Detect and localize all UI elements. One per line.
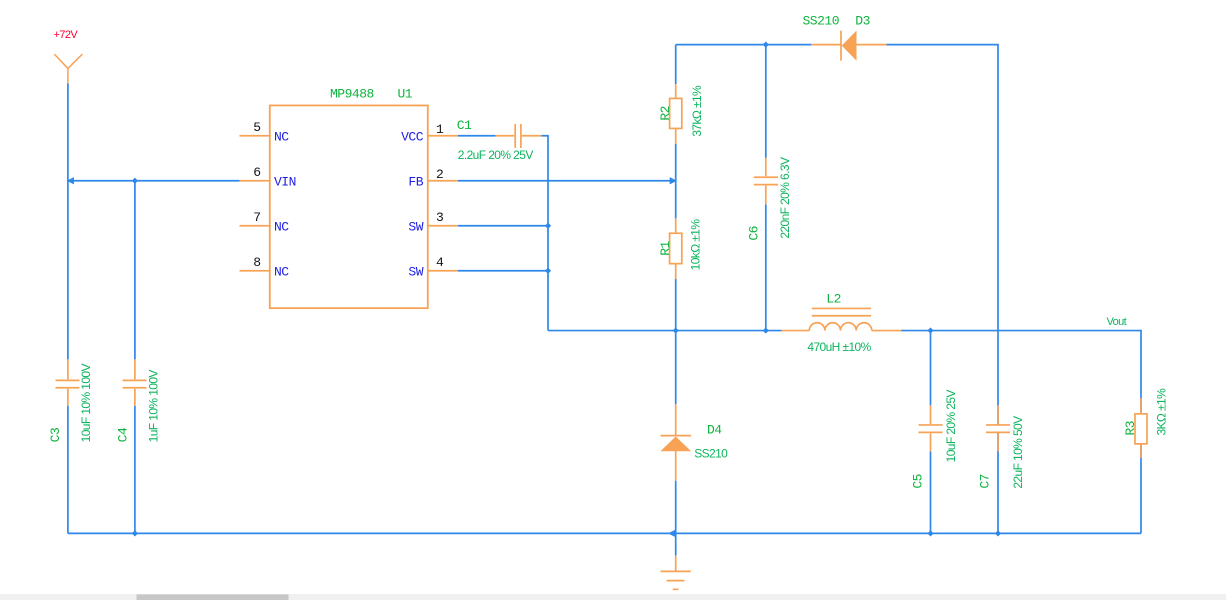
junction arrow D4/gnd: [668, 530, 675, 537]
svg-text:VCC: VCC: [401, 129, 424, 144]
capacitor C1 symbol: [496, 124, 542, 148]
svg-text:470uH ±10%: 470uH ±10%: [807, 340, 871, 354]
pin 7: [240, 225, 270, 227]
svg-text:4: 4: [436, 255, 444, 270]
capacitor C6: [765, 45, 767, 331]
svg-text:220nF 20% 6.3V: 220nF 20% 6.3V: [778, 157, 792, 239]
wire: bottom ground rail: [68, 532, 1141, 534]
junction dot C5 bottom: [927, 530, 933, 536]
svg-text:6: 6: [253, 165, 260, 180]
svg-text:10uF 20% 25V: 10uF 20% 25V: [944, 390, 958, 463]
svg-text:VIN: VIN: [274, 174, 296, 189]
resistor R2: [670, 84, 682, 144]
svg-text:SS210: SS210: [694, 447, 728, 461]
svg-text:R2: R2: [658, 106, 673, 121]
pin 2 FB: [428, 180, 458, 182]
svg-text:10uF 10% 100V: 10uF 10% 100V: [79, 363, 93, 442]
svg-text:NC: NC: [274, 264, 289, 279]
pin 5: [240, 135, 270, 137]
pin 4 SW: [428, 270, 458, 272]
svg-text:MP9488: MP9488: [330, 86, 374, 101]
pin 6: [240, 180, 270, 182]
svg-text:C4: C4: [116, 427, 131, 442]
wire: left main vertical from power to bottom rail: [67, 83, 69, 533]
svg-text:8: 8: [253, 255, 260, 270]
svg-text:5: 5: [253, 120, 260, 135]
svg-text:R3: R3: [1123, 421, 1138, 436]
junction dot C6 bottom: [763, 327, 769, 333]
scrollbar track: [0, 594, 1226, 600]
inductor L2: [782, 308, 901, 330]
capacitor C7: [986, 405, 1010, 451]
svg-text:C3: C3: [48, 428, 63, 443]
diode D4: [661, 404, 692, 480]
svg-text:C7: C7: [978, 474, 993, 489]
wire: top net horizontal: [676, 45, 998, 534]
wire: top net vertical above R2 and divider verticals: [675, 45, 677, 405]
svg-text:Vout: Vout: [1107, 316, 1127, 328]
svg-text:L2: L2: [826, 291, 841, 306]
svg-text:D3: D3: [855, 14, 870, 29]
wire: VIN horizontal from left vertical to pin 6: [68, 180, 240, 182]
junction dot C5 top: [927, 327, 933, 333]
svg-text:2.2uF 20% 25V: 2.2uF 20% 25V: [458, 148, 534, 162]
svg-text:SW: SW: [408, 264, 423, 279]
junction dot C7 bottom: [995, 530, 1001, 536]
junction dot SW pin4: [545, 268, 551, 274]
svg-text:D4: D4: [707, 423, 722, 438]
svg-text:22uF 10% 50V: 22uF 10% 50V: [1011, 416, 1025, 489]
svg-text:2: 2: [436, 167, 443, 182]
svg-text:1uF 10% 100V: 1uF 10% 100V: [147, 370, 161, 443]
wire: SW bus horizontal: [548, 331, 1141, 398]
wire: VCC to C1: [458, 135, 496, 137]
wire: D4 to bottom rail: [675, 481, 677, 556]
junction dot SW pin3: [545, 223, 551, 229]
svg-text:3: 3: [436, 210, 443, 225]
svg-text:10kΩ ±1%: 10kΩ ±1%: [689, 219, 703, 271]
capacitor C4 symbol: [123, 359, 147, 406]
junction arrow FB divider: [670, 177, 677, 184]
svg-text:NC: NC: [274, 219, 289, 234]
svg-text:1: 1: [436, 122, 444, 137]
svg-text:SS210: SS210: [803, 14, 840, 29]
pin 1 VCC: [428, 135, 458, 137]
svg-text:NC: NC: [274, 129, 289, 144]
scrollbar thumb: [137, 594, 289, 600]
capacitor C5: [930, 331, 932, 534]
junction dot divider/SW: [673, 327, 679, 333]
svg-text:FB: FB: [408, 174, 423, 189]
svg-text:C1: C1: [457, 118, 472, 133]
junction dot C4 bottom: [132, 530, 138, 536]
svg-text:U1: U1: [398, 86, 413, 101]
svg-text:+72V: +72V: [54, 29, 79, 41]
wire: C4 branch vertical: [134, 181, 136, 534]
resistor R3: [1140, 398, 1142, 533]
junction dot C4 top: [132, 178, 138, 184]
IC U1 body: [270, 105, 428, 308]
wire: FB horizontal to divider: [458, 180, 676, 182]
svg-text:R1: R1: [658, 240, 673, 255]
svg-text:C6: C6: [747, 226, 762, 241]
power flag symbol (Y antenna): [54, 54, 82, 83]
resistor R1: [670, 218, 682, 279]
pin 3 SW: [428, 225, 458, 227]
svg-text:3KΩ ±1%: 3KΩ ±1%: [1154, 388, 1168, 436]
ground symbol: [661, 556, 691, 590]
svg-text:37kΩ ±1%: 37kΩ ±1%: [690, 85, 704, 137]
capacitor C3 symbol: [56, 359, 80, 406]
diode D3: [811, 31, 887, 61]
svg-text:7: 7: [253, 210, 260, 225]
junction dot C6 top: [763, 42, 769, 48]
svg-text:SW: SW: [408, 219, 423, 234]
svg-text:C5: C5: [911, 474, 926, 489]
wire: C1 to SW node vertical: [458, 136, 548, 331]
junction arrow at (67,180): [67, 177, 74, 184]
pin 8: [240, 270, 270, 272]
